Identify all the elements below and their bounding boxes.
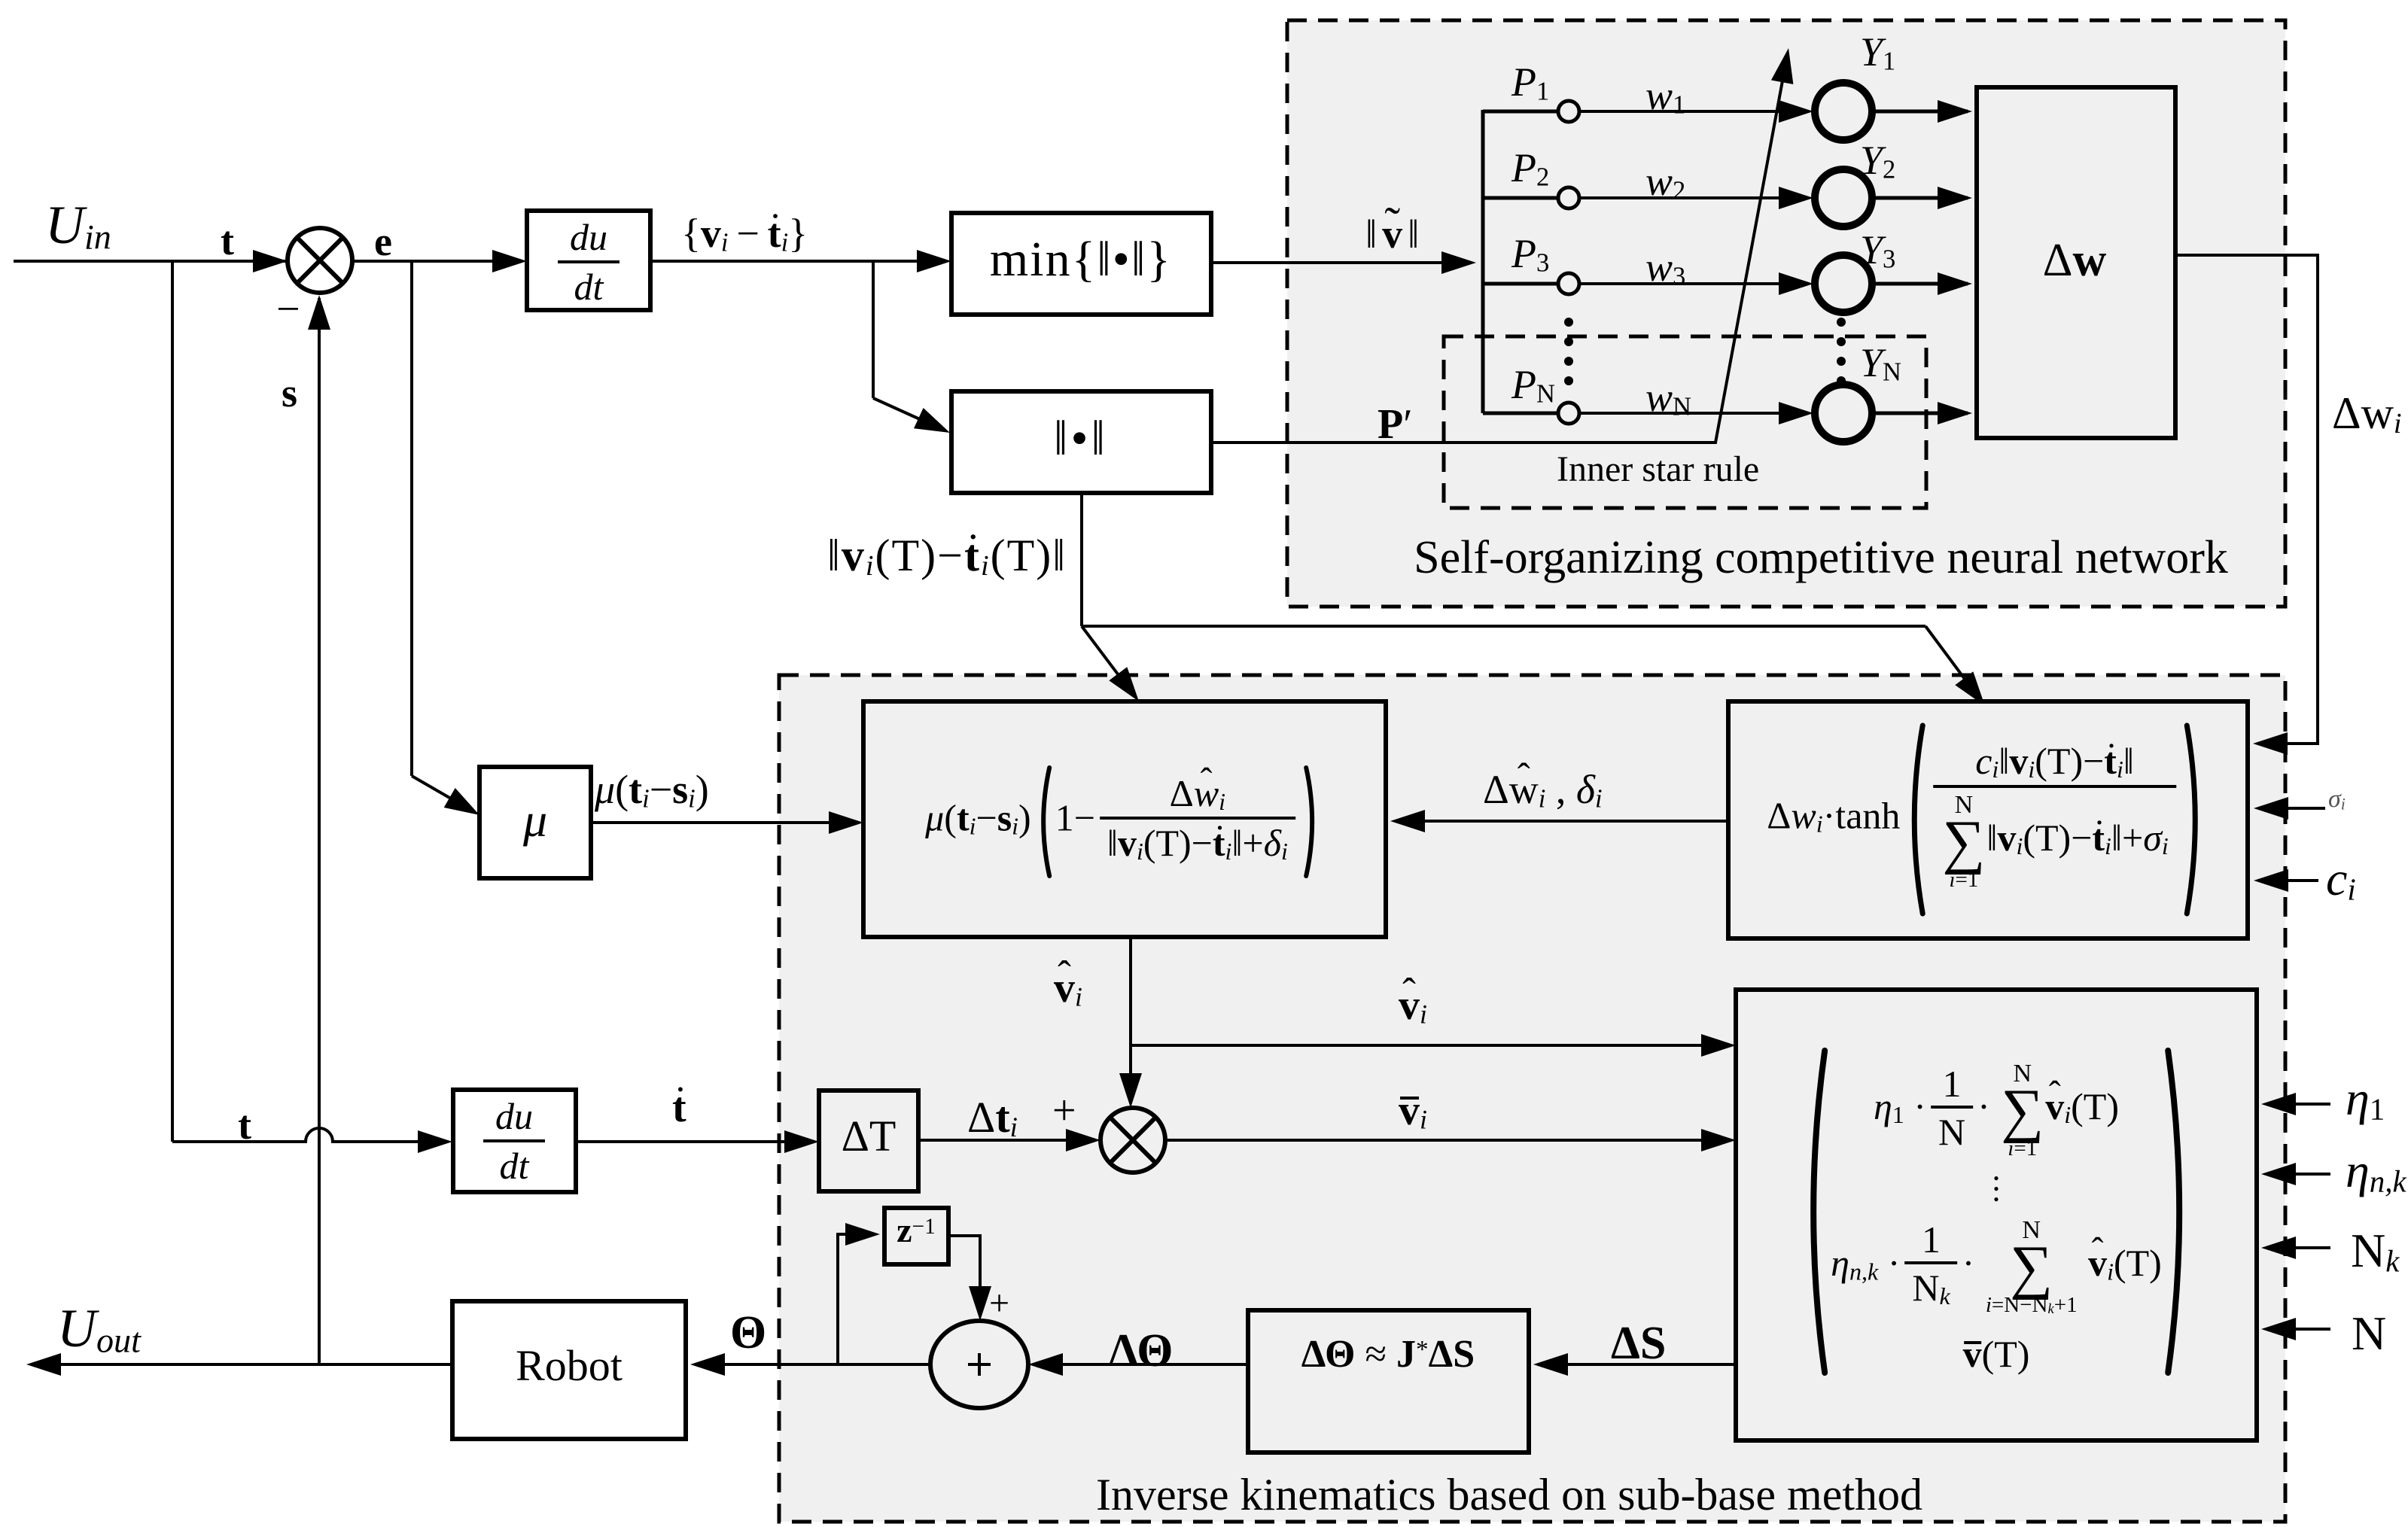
arrowhead into Robot [690,1353,725,1376]
label ||v~|| [1365,214,1424,254]
sum3 plus vertical [978,1353,981,1376]
label SOCNN [1414,534,2228,581]
formula eta averaging matrix [1795,1048,2198,1376]
label U_out [57,1301,141,1358]
wire feedback up to z-1 [838,1234,875,1364]
arrowhead into norm box [914,408,950,433]
arrowhead Y1 into Delta-w [1938,100,1972,123]
wire w3 [1579,282,1806,285]
wire distribution horizontal [1082,625,1925,628]
label Delta-t_i [967,1096,1018,1142]
node P3 circle [1558,273,1579,294]
wire e to du/dt1 [412,260,522,263]
sum junction 1 (t - s) [288,228,352,293]
label N [2352,1310,2386,1358]
wire v-hat down [1129,937,1132,1103]
label eta_1 [2346,1075,2385,1125]
arrowhead U_out [26,1353,61,1376]
neuron Y1 [1815,83,1872,140]
label v-hat_i (vertical) [1054,967,1082,1011]
label Delta-w block [2043,237,2107,284]
block du/dt 1 [527,211,650,310]
arrowhead into YN [1779,402,1813,424]
label c_i [2326,855,2356,905]
label U_in [45,198,111,254]
arrowhead into sum2 left [1066,1129,1100,1151]
label minus at sum1 [276,288,300,330]
block Delta-w tanh formula [1728,701,2248,938]
wire wN [1579,412,1806,415]
label Y2 [1860,140,1895,183]
arrowhead s into sum1 [308,295,330,330]
arrowhead into mu formula box left [829,811,863,834]
arrowhead into mu box [444,788,479,815]
wire N input [2266,1328,2330,1331]
label IK method [1096,1472,1922,1517]
label w1 [1645,75,1685,118]
block ||.|| [951,391,1211,493]
wire diagonal to norm box [873,398,945,430]
wire Y2 to Delta-w [1872,196,1968,200]
neuron Y2 [1815,169,1872,227]
wire P bus vertical [1481,110,1485,413]
wire to min box [873,260,947,263]
arrowhead into P bus [1441,251,1476,274]
arrowhead into du/dt2 [418,1130,452,1153]
label s [282,373,297,413]
block eta averaging matrix [1736,990,2257,1440]
formula mu(t_i-s_i)(1-...) [925,765,1324,879]
arrowhead into J block [1533,1353,1568,1376]
block z^-1 [884,1208,948,1264]
label w2 [1645,161,1685,204]
wire branch down to norm box [872,261,875,398]
block Delta-w [1977,87,2175,438]
wire U_out [31,1363,452,1366]
label v-hat_i (to matrix) [1399,984,1427,1029]
label plus at sum3 top [989,1285,1009,1322]
label DeltaS wire [1611,1320,1666,1367]
label P3 [1511,233,1549,276]
arrowhead eta_nk into matrix box [2261,1163,2296,1185]
label Delta-w-hat_i, delta_i [1483,769,1603,812]
arrowhead z-1 into sum3 top [969,1286,991,1321]
wire Y1 to Delta-w [1872,110,1968,114]
wire w2 [1579,196,1806,199]
sum1 cross stroke 1 [297,238,342,283]
vdots P column [1564,318,1573,327]
wire w1 [1579,110,1806,113]
wire t branch down [171,261,174,1142]
label DeltaTheta wire [1109,1328,1174,1374]
wire ||v~|| to network [1211,261,1472,264]
arrowhead v-bar into matrix box [1701,1129,1736,1151]
wire diagonal into tanh box [1925,626,1980,699]
label wN [1645,377,1691,420]
block min{||.||} [951,213,1211,315]
label mu block [523,796,547,844]
arrowhead into min box [917,250,951,272]
label YN [1860,342,1901,385]
wire e from sum1 [352,260,412,263]
arrowhead into mu formula box top [1109,667,1139,701]
arrowhead into sum2 [1119,1073,1142,1108]
label N_k [2351,1227,2399,1277]
wire P1 row left [1483,110,1558,114]
wire sigma_i input [2258,807,2325,810]
wire mu(t_i-s_i) [591,821,859,824]
arrowhead eta1 into matrix box [2261,1093,2296,1115]
arrowhead into Y2 [1779,187,1813,209]
arrowhead into tanh box right [2253,732,2288,755]
neuron Y3 [1815,255,1872,312]
node P1 circle [1558,101,1579,122]
wire eta_nk input [2266,1173,2330,1176]
sum2 cross stroke 2 [1110,1118,1155,1163]
label DeltaT block [842,1115,897,1158]
wire Uin to sum1 [14,260,288,263]
label PN [1511,364,1555,407]
arrowhead into Y1 [1779,100,1813,123]
wire P2 row left [1483,196,1558,200]
label Theta [730,1310,766,1356]
node PN circle [1558,403,1579,424]
label eta_nk [2346,1147,2406,1197]
label t (top) [221,221,234,261]
label J* DeltaS block [1301,1335,1475,1374]
arrowhead into mu formula box right [1390,810,1425,832]
wire P-prime and diagonal competition arrow [1211,56,1787,443]
wire PN row left [1483,412,1558,415]
dashed container: Inner star rule [1444,336,1926,508]
label ||v_i(T)-t_i(T)|| [827,533,1067,581]
block DeltaT [819,1090,918,1191]
arrowhead Y3 into Delta-w [1938,272,1972,295]
arrowhead c_i [2254,869,2288,892]
label Delta-w_i [2332,391,2402,439]
label min norm [990,235,1172,284]
wire Theta to Robot [695,1363,930,1366]
arrowhead into Y3 [1779,272,1813,295]
block mu formula [863,701,1386,937]
wire z-1 to sum3 [948,1236,980,1316]
dashed container: Self-organizing competitive neural network [1287,20,2285,607]
sum2 cross stroke 1 [1110,1118,1155,1163]
arrowhead YN into Delta-w [1938,402,1972,424]
sum3 plus horizontal [968,1363,991,1366]
wire {v_i - t_i} [650,260,873,263]
label Inner star rule [1557,452,1759,488]
label {v_i - t_i} [681,213,808,256]
label du/dt 2 [483,1097,545,1185]
arrowhead sigma_i [2254,797,2288,820]
wire v-bar_i to matrix box [1165,1139,1731,1142]
arrowhead v-hat into matrix box [1701,1034,1736,1057]
wire P3 row left [1483,282,1558,286]
node P2 circle [1558,187,1579,208]
wire diagonal into mu formula box [1082,626,1134,696]
block du/dt 2 [453,1090,576,1192]
wire Delta-w_i feedback right side [2175,255,2318,744]
neuron YN [1815,385,1872,442]
wire e branch down [410,261,413,776]
sum junction 3 (+) [930,1321,1028,1408]
label t-dot [672,1087,686,1129]
wire t to du/dt2 with hop over s line [172,1128,448,1142]
label e [374,221,392,262]
arrowhead into du/dt1 [492,250,527,272]
formula Delta-w_i tanh(...) [1767,722,2209,917]
wire DeltaS [1538,1363,1736,1366]
sum junction 2 (v-hat + Delta-t) [1100,1108,1165,1173]
wire e diagonal to mu box [412,776,474,812]
wire YN to Delta-w [1872,412,1968,415]
label z^-1 [897,1213,936,1248]
label Robot [516,1344,623,1388]
wire Delta-w-hat delta to mu formula box [1395,820,1728,823]
wire ||v_i(T)-t_i(T)|| down [1080,493,1083,626]
label P1 [1511,62,1549,105]
wire t-dot to DeltaT [576,1140,814,1143]
arrowhead N into matrix box [2261,1318,2296,1340]
arrowhead Y2 into Delta-w [1938,187,1972,209]
block mu gain [479,767,591,878]
vdots Y column [1837,318,1846,327]
sum1 cross stroke 2 [297,238,342,283]
wire N_k input [2266,1246,2330,1249]
label norm [1054,414,1108,464]
wire eta1 input [2266,1103,2330,1106]
wire v-hat_i to matrix box [1131,1044,1731,1047]
label plus at sum2 [1052,1090,1076,1132]
wire c_i input [2258,879,2318,882]
arrowhead into sum3 [1028,1353,1063,1376]
label sigma_i [2328,786,2346,813]
wire Delta-t_i to sum2 [918,1139,1096,1142]
arrowhead into sum1 [253,250,288,272]
label t (bottom) [238,1105,251,1145]
label mu(t_i-s_i) [595,769,709,812]
label v-bar_i [1399,1090,1427,1134]
label Y1 [1860,32,1895,75]
arrowhead into tanh box top [1955,671,1985,706]
arrowhead into z-1 [845,1223,880,1246]
label P2 [1511,148,1549,190]
arrowhead N_k into matrix box [2261,1237,2296,1259]
block Robot [452,1301,686,1439]
dashed container: Inverse kinematics based on sub-base method [779,675,2285,1522]
wire DeltaTheta [1033,1363,1248,1366]
label w3 [1645,247,1685,290]
wire s feedback up [318,298,321,1364]
label du/dt 1 [558,218,620,306]
label P-prime [1378,403,1412,446]
label Y3 [1860,230,1895,272]
arrowhead diagonal up [1771,48,1794,84]
arrowhead into DeltaT [784,1130,819,1153]
wire Y3 to Delta-w [1872,282,1968,286]
block DeltaTheta = J* DeltaS [1248,1310,1529,1452]
